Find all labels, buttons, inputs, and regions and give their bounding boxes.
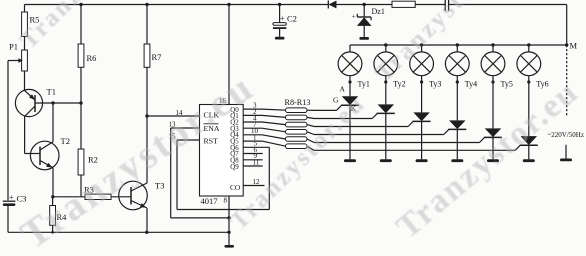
svg-text:Dz1: Dz1 [372, 7, 385, 16]
svg-text:C3: C3 [17, 194, 27, 204]
svg-text:8: 8 [224, 197, 228, 205]
svg-text:4017: 4017 [201, 196, 218, 206]
svg-text:~220V/50Hz: ~220V/50Hz [548, 131, 584, 139]
svg-text:T3: T3 [155, 181, 164, 191]
svg-text:+: + [352, 13, 356, 21]
svg-text:Ty4: Ty4 [465, 80, 477, 89]
svg-text:Ty5: Ty5 [501, 80, 513, 89]
svg-text:T1: T1 [47, 87, 56, 97]
svg-text:M: M [570, 41, 578, 51]
svg-text:Ty3: Ty3 [429, 80, 441, 89]
svg-text:11: 11 [253, 158, 260, 166]
svg-text:R6: R6 [87, 53, 97, 63]
svg-text:Ty1: Ty1 [358, 80, 370, 89]
svg-text:R7: R7 [152, 52, 162, 62]
svg-text:A: A [340, 85, 346, 94]
svg-text:+: + [9, 193, 14, 202]
svg-text:C2: C2 [287, 13, 297, 23]
svg-text:Q9: Q9 [230, 164, 239, 171]
svg-text:+: + [280, 14, 285, 23]
svg-text:CO: CO [230, 183, 241, 192]
svg-text:P1: P1 [9, 42, 18, 52]
svg-text:R8-R13: R8-R13 [285, 98, 311, 107]
svg-text:T2: T2 [61, 136, 70, 146]
